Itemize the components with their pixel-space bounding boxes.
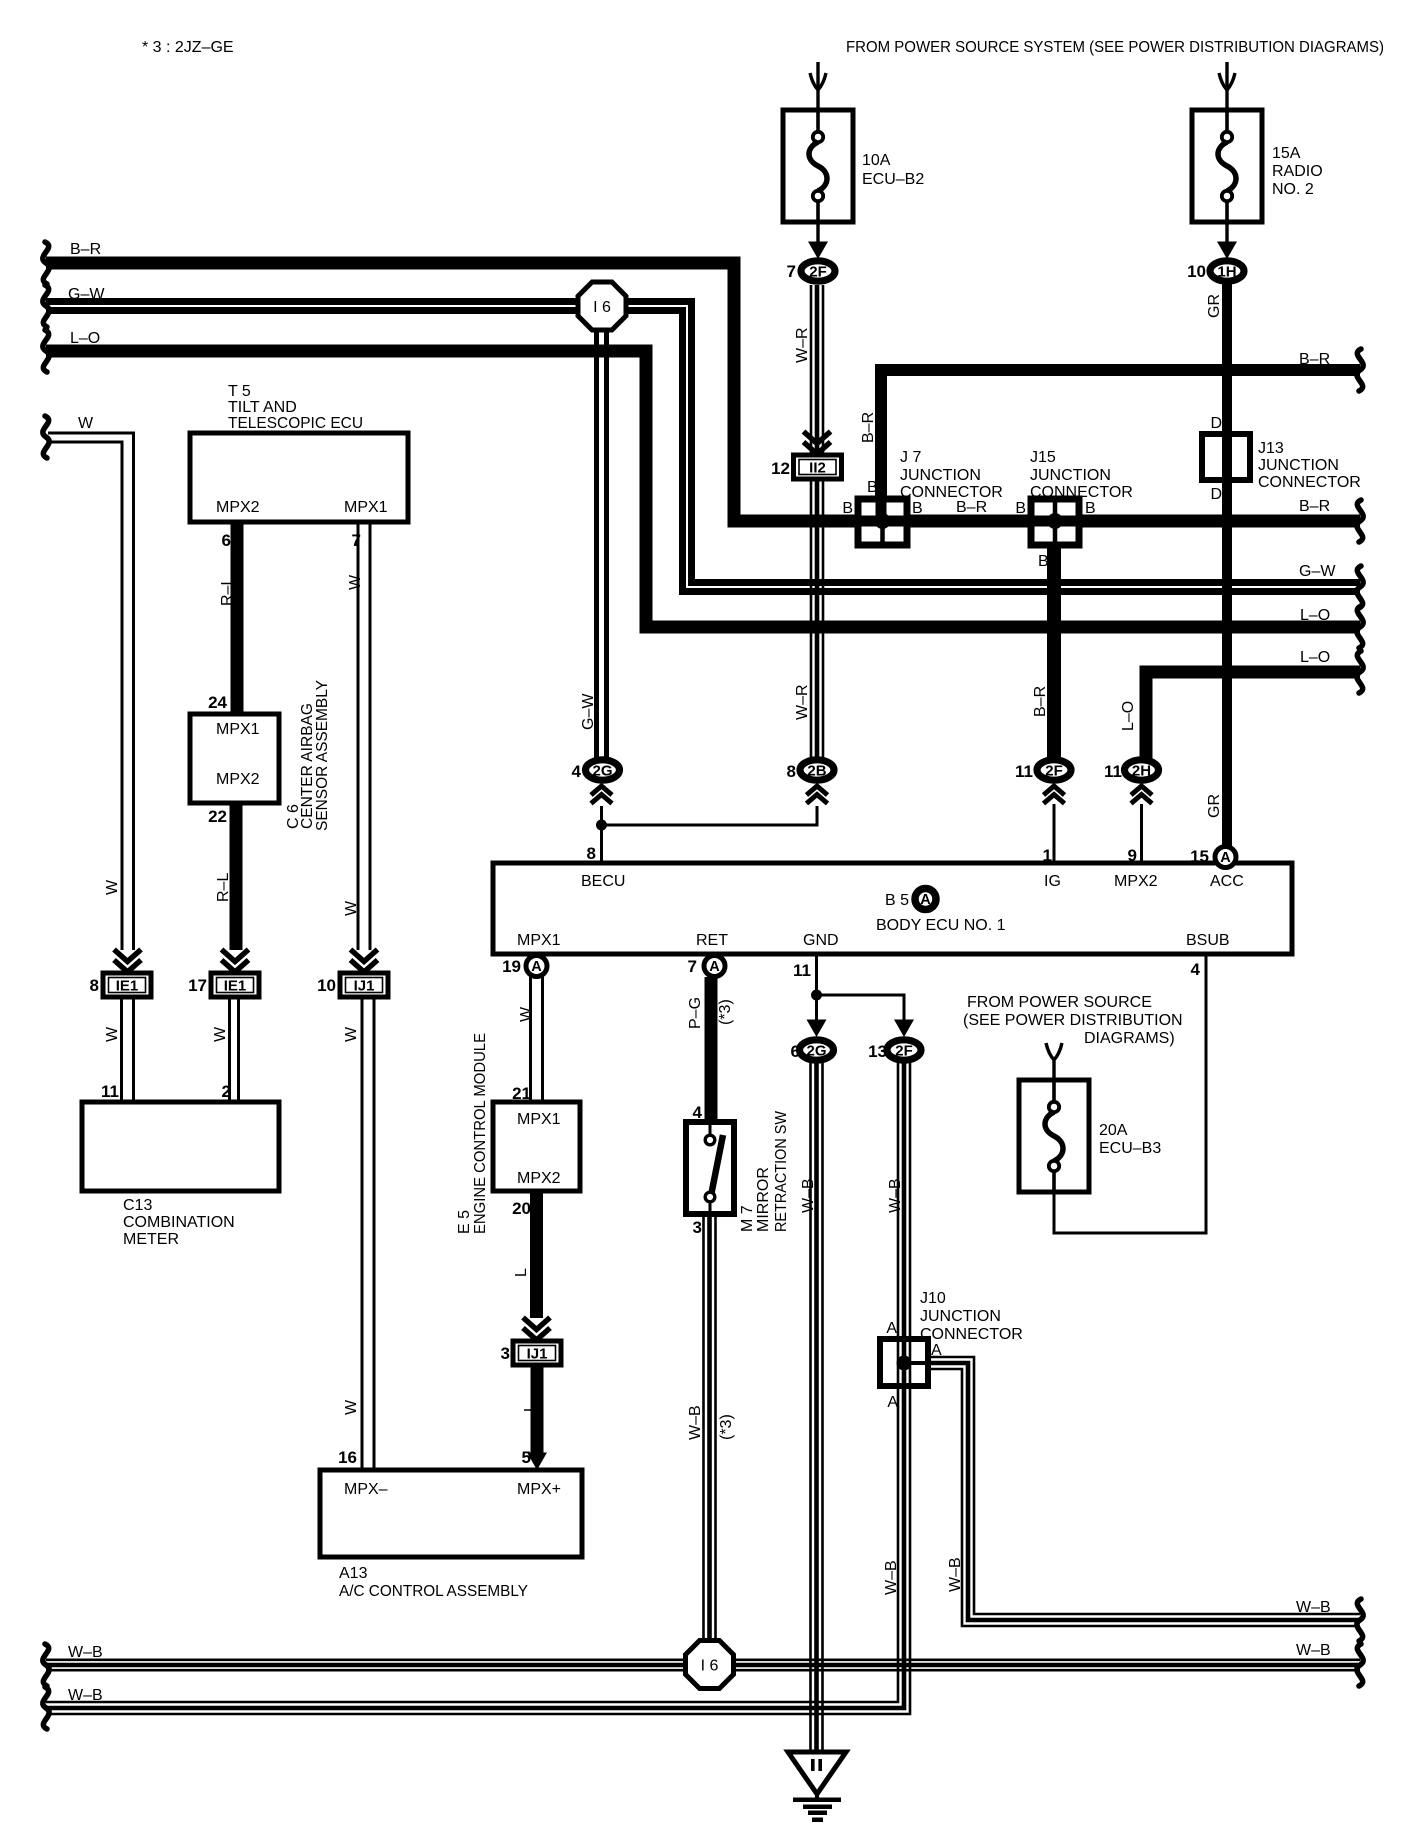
svg-text:TELESCOPIC ECU: TELESCOPIC ECU <box>228 415 363 432</box>
svg-text:L–O: L–O <box>70 330 100 347</box>
svg-text:G–W: G–W <box>580 693 597 730</box>
wire MPX2 pin9 <box>1140 804 1143 863</box>
junction dot GND branch <box>811 990 822 1001</box>
connector oval 2F(11) <box>1037 760 1071 780</box>
svg-text:W–B: W–B <box>887 1178 904 1213</box>
svg-text:A/C CONTROL ASSEMBLY: A/C CONTROL ASSEMBLY <box>339 1583 528 1600</box>
wire W-B 2G to ground (triple) <box>811 1060 823 1752</box>
chevron up into 2H(11) <box>1131 786 1152 804</box>
vertical wire color labels <box>104 294 1223 1595</box>
svg-text:2F: 2F <box>809 264 827 281</box>
wire P-G 7A to M7 pin4 <box>705 977 718 1124</box>
svg-text:G–W: G–W <box>68 286 105 303</box>
svg-text:I 6: I 6 <box>701 1658 719 1675</box>
E5 engine control module box <box>493 1102 580 1191</box>
svg-text:B: B <box>1015 500 1026 517</box>
junction connector J7 <box>858 499 907 545</box>
chevron into II2 <box>804 432 831 455</box>
svg-text:RETRACTION SW: RETRACTION SW <box>773 1110 790 1232</box>
T5 tilt and telescopic ECU box <box>190 433 408 522</box>
chevron into IJ1 no.3 <box>523 1318 550 1341</box>
pin number labels <box>90 262 1209 1467</box>
svg-text:I 6: I 6 <box>593 299 611 316</box>
svg-text:7: 7 <box>787 262 796 281</box>
svg-text:7: 7 <box>688 957 697 976</box>
svg-text:ECU–B2: ECU–B2 <box>862 171 924 188</box>
svg-text:MPX2: MPX2 <box>216 771 260 788</box>
wire W-B J10 right to upper right wavy (triple with corners) <box>928 1357 1360 1626</box>
svg-text:* 3 : 2JZ–GE: * 3 : 2JZ–GE <box>142 39 234 56</box>
svg-text:L–O: L–O <box>1120 701 1137 731</box>
chevron up into 2B(8) <box>807 786 828 804</box>
svg-text:3: 3 <box>501 1344 510 1363</box>
svg-text:BECU: BECU <box>581 873 625 890</box>
svg-text:21: 21 <box>512 1084 531 1103</box>
svg-text:15: 15 <box>1190 847 1209 866</box>
svg-text:8: 8 <box>90 976 99 995</box>
svg-text:W–B: W–B <box>68 1644 103 1661</box>
wire end B-R right upper <box>1357 349 1363 391</box>
svg-text:2G: 2G <box>806 1043 826 1060</box>
svg-text:2G: 2G <box>592 763 612 780</box>
connector IE1 no.8 <box>103 973 151 997</box>
svg-text:1: 1 <box>1043 846 1052 865</box>
svg-text:B: B <box>912 500 923 517</box>
svg-text:8: 8 <box>587 844 596 863</box>
svg-text:4: 4 <box>693 1103 703 1122</box>
svg-text:MPX–: MPX– <box>344 1481 388 1498</box>
wire end L-O right <box>1357 606 1363 648</box>
svg-text:L: L <box>522 1403 539 1412</box>
svg-text:IJ1: IJ1 <box>354 978 375 995</box>
svg-text:B: B <box>867 479 878 496</box>
svg-text:L–O: L–O <box>1300 607 1330 624</box>
wire end L-O right second <box>1357 651 1363 693</box>
svg-text:A: A <box>920 892 931 908</box>
svg-text:A: A <box>887 1394 898 1411</box>
svg-text:ECU–B3: ECU–B3 <box>1099 1140 1161 1157</box>
svg-text:B: B <box>842 500 853 517</box>
svg-text:4: 4 <box>1191 960 1201 979</box>
svg-text:(*3): (*3) <box>718 1414 735 1440</box>
svg-text:9: 9 <box>1128 846 1137 865</box>
wire W-B 2F(13) to J10 (triple) <box>898 1060 910 1345</box>
wire BSUB pin4 to 20A fuse <box>1054 956 1206 1233</box>
svg-text:JUNCTION: JUNCTION <box>900 467 981 484</box>
svg-text:JUNCTION: JUNCTION <box>1030 467 1111 484</box>
wire end W-B busB left <box>43 1687 49 1729</box>
svg-text:L–O: L–O <box>1300 649 1330 666</box>
svg-text:D: D <box>1210 486 1222 503</box>
junction connector J13 <box>1202 434 1250 480</box>
connector oval 2B(8) <box>800 760 834 780</box>
svg-text:MIRROR: MIRROR <box>755 1167 772 1232</box>
wire end G-W right <box>1357 566 1363 608</box>
wire B-R upper (J7 top branch) <box>881 370 1360 503</box>
wire L-O bus left, corner, right wavy <box>46 351 1360 627</box>
svg-text:JUNCTION: JUNCTION <box>920 1308 1001 1325</box>
svg-text:RADIO: RADIO <box>1272 163 1323 180</box>
svg-text:B 5: B 5 <box>885 892 909 909</box>
node I6 top <box>578 282 626 330</box>
svg-text:J15: J15 <box>1030 449 1056 466</box>
svg-text:MPX1: MPX1 <box>344 499 388 516</box>
svg-text:DIAGRAMS): DIAGRAMS) <box>1084 1030 1175 1047</box>
connector oval 2F(7) <box>801 261 835 281</box>
fuse 15A RADIO NO.2 <box>1192 110 1262 222</box>
node A circle ACC(15) <box>1215 847 1236 868</box>
C13 combination meter box <box>82 1102 279 1191</box>
wire end W-B busA left <box>43 1644 49 1686</box>
wire fuse to 1H(10) <box>1225 222 1228 245</box>
svg-text:E 5: E 5 <box>456 1210 473 1234</box>
svg-text:B–R: B–R <box>70 241 101 258</box>
wire end B-R right <box>1357 500 1363 542</box>
node I6 bottom <box>686 1641 734 1689</box>
wire GR 1H to ACC <box>1222 282 1232 848</box>
svg-text:J10: J10 <box>920 1290 946 1307</box>
svg-text:A: A <box>931 1342 942 1359</box>
body ECU no.1 box <box>493 863 1292 954</box>
svg-text:19: 19 <box>502 957 521 976</box>
svg-text:2F: 2F <box>1045 763 1063 780</box>
svg-text:MPX2: MPX2 <box>216 499 260 516</box>
wire end W-B right lower <box>1357 1644 1363 1686</box>
svg-text:BSUB: BSUB <box>1186 932 1230 949</box>
wire L-O second (to 2H) <box>1146 672 1360 760</box>
svg-text:IG: IG <box>1044 873 1061 890</box>
wire end W left <box>43 416 49 458</box>
node A circle MPX1(19) <box>526 956 547 977</box>
wire W 19A to E5 MPX1 (double) <box>529 977 532 1103</box>
svg-text:MPX1: MPX1 <box>517 932 561 949</box>
svg-text:6: 6 <box>222 531 231 550</box>
connector oval 1H(10) <box>1210 261 1244 281</box>
svg-text:J 7: J 7 <box>900 449 921 466</box>
svg-text:B–R: B–R <box>1299 498 1330 515</box>
junction connector J15 <box>1031 499 1079 545</box>
svg-text:B–R: B–R <box>860 412 877 443</box>
chevron into IE1 no.8 <box>114 950 141 973</box>
svg-text:T 5: T 5 <box>228 383 251 400</box>
svg-text:B–R: B–R <box>1299 351 1330 368</box>
svg-text:SENSOR ASSEMBLY: SENSOR ASSEMBLY <box>314 680 331 831</box>
connector IJ1 no.3 <box>513 1341 561 1365</box>
svg-text:P–G: P–G <box>687 997 704 1029</box>
svg-text:(SEE POWER DISTRIBUTION: (SEE POWER DISTRIBUTION <box>963 1012 1183 1029</box>
svg-text:COMBINATION: COMBINATION <box>123 1214 235 1231</box>
wire end G-W left <box>43 285 49 327</box>
svg-text:8: 8 <box>787 762 796 781</box>
wire W T5 MPX1 to IJ1 no.10 (double) <box>357 520 360 950</box>
svg-text:B–R: B–R <box>956 499 987 516</box>
svg-text:A13: A13 <box>339 1565 368 1582</box>
svg-text:NO. 2: NO. 2 <box>1272 181 1314 198</box>
svg-text:MPX1: MPX1 <box>216 721 260 738</box>
svg-text:METER: METER <box>123 1231 179 1248</box>
chevron up into 2G(4) <box>591 786 612 804</box>
svg-text:FROM POWER SOURCE: FROM POWER SOURCE <box>967 994 1152 1011</box>
connector oval 2G(4) <box>586 760 620 780</box>
20A ECU-B3 fuse feed arrow <box>1046 1043 1062 1060</box>
wire IG pin1 <box>1053 804 1056 863</box>
wire fuse to 2F(7) <box>816 222 819 245</box>
wire W IJ1 no.10 to A13 pin16 (double) <box>361 997 364 1472</box>
wire W-R fuse2F to II2 (triple) <box>811 285 823 455</box>
wire end B-R left <box>43 242 49 284</box>
svg-text:R–L: R–L <box>215 873 232 902</box>
connector IE1 no.17 <box>211 973 259 997</box>
svg-text:IE1: IE1 <box>224 978 247 995</box>
svg-text:BODY ECU NO. 1: BODY ECU NO. 1 <box>876 917 1006 934</box>
svg-text:2: 2 <box>222 1082 231 1101</box>
junction dot BECU branch <box>596 820 607 831</box>
junction connector J10 <box>880 1339 928 1386</box>
svg-text:RET: RET <box>696 932 728 949</box>
wire R-L T5 MPX2 to C6 <box>231 520 244 716</box>
svg-text:J13: J13 <box>1258 440 1284 457</box>
svg-text:CONNECTOR: CONNECTOR <box>1258 474 1361 491</box>
node A circle RET(7) <box>704 956 725 977</box>
solid arrow into 2F(13) <box>894 1020 914 1038</box>
svg-text:22: 22 <box>208 807 227 826</box>
svg-text:1H: 1H <box>1217 264 1236 281</box>
connector oval 2H(11) <box>1125 760 1159 780</box>
svg-text:GND: GND <box>803 932 839 949</box>
svg-text:B–R: B–R <box>1032 686 1049 717</box>
svg-text:W–R: W–R <box>794 327 811 363</box>
svg-text:ENGINE CONTROL MODULE: ENGINE CONTROL MODULE <box>472 1033 489 1234</box>
M7 mirror retraction switch <box>686 1122 734 1214</box>
svg-text:W: W <box>104 1026 121 1042</box>
wire GND pin11 branch <box>815 956 818 1022</box>
svg-text:MPX1: MPX1 <box>517 1111 561 1128</box>
svg-text:13: 13 <box>868 1042 887 1061</box>
wire G-W bus (double) left to I6 corner down right wavy <box>46 302 1360 583</box>
svg-text:ACC: ACC <box>1210 873 1244 890</box>
svg-text:CONNECTOR: CONNECTOR <box>920 1326 1023 1343</box>
svg-text:CONNECTOR: CONNECTOR <box>900 484 1003 501</box>
fuse 15A RADIO feed wire <box>1225 62 1228 112</box>
wire R-L C6 to IE1 no.17 <box>230 801 243 950</box>
fuse 10A ECU-B2 feed wire <box>816 62 819 112</box>
svg-text:11: 11 <box>1015 762 1033 781</box>
svg-text:2H: 2H <box>1132 763 1151 780</box>
fuse 20A ECU-B3 <box>1019 1080 1089 1192</box>
svg-text:B: B <box>1038 553 1049 570</box>
connector oval 2G(6) <box>800 1040 834 1060</box>
svg-text:2B: 2B <box>807 763 826 780</box>
svg-text:(*3): (*3) <box>717 999 734 1025</box>
svg-text:FROM POWER SOURCE SYSTEM (SEE: FROM POWER SOURCE SYSTEM (SEE POWER DIST… <box>846 39 1384 56</box>
svg-text:IE1: IE1 <box>116 978 139 995</box>
svg-text:A: A <box>886 1320 897 1337</box>
wire W below IE1 no.8 to C13 pin 11 (double) <box>120 997 123 1103</box>
connector II2 <box>794 455 842 479</box>
svg-text:GR: GR <box>1206 294 1223 318</box>
wire end W-B right upper <box>1357 1599 1363 1641</box>
svg-text:24: 24 <box>208 693 227 712</box>
svg-text:10A: 10A <box>862 152 891 169</box>
svg-text:L: L <box>513 1268 530 1277</box>
svg-text:10: 10 <box>317 976 336 995</box>
svg-text:3: 3 <box>693 1218 702 1237</box>
wire L E5 MPX2 to IJ1 no.3 <box>530 1190 543 1318</box>
svg-text:2F: 2F <box>895 1043 913 1060</box>
svg-text:W: W <box>212 1026 229 1042</box>
A13 A/C control assembly box <box>320 1470 582 1557</box>
svg-text:D: D <box>1210 415 1222 432</box>
svg-text:W–B: W–B <box>1296 1599 1331 1616</box>
svg-text:B: B <box>1085 500 1096 517</box>
fuse 10A ECU-B2 <box>783 110 853 222</box>
svg-text:W: W <box>343 1026 360 1042</box>
wire W-B bus A left wavy through I6 to right wavy (triple) <box>46 1659 1360 1662</box>
svg-text:W: W <box>343 1399 360 1415</box>
svg-text:15A: 15A <box>1272 145 1301 162</box>
svg-text:W–B: W–B <box>687 1405 704 1440</box>
svg-text:W: W <box>78 415 94 432</box>
svg-text:20A: 20A <box>1099 1122 1128 1139</box>
svg-text:W–B: W–B <box>68 1687 103 1704</box>
svg-text:IJ1: IJ1 <box>527 1346 548 1363</box>
svg-text:10: 10 <box>1187 262 1206 281</box>
wire B-R bus top-left to J7/J15/right wavy <box>46 263 1360 521</box>
svg-text:16: 16 <box>338 1448 357 1467</box>
svg-text:4: 4 <box>572 762 582 781</box>
solid arrow into 2G(6) <box>807 1020 827 1038</box>
node A circle B5 <box>915 889 936 910</box>
C6 center airbag sensor box <box>190 714 279 803</box>
wire end L-O left <box>43 330 49 372</box>
svg-text:TILT AND: TILT AND <box>228 399 297 416</box>
wire B J15 to 2F <box>1047 540 1061 760</box>
svg-text:W–R: W–R <box>794 684 811 720</box>
wire L IJ1 no.3 to A13 MPX+ <box>531 1365 544 1455</box>
svg-text:CONNECTOR: CONNECTOR <box>1030 484 1133 501</box>
svg-text:G–W: G–W <box>1299 563 1336 580</box>
svg-text:11: 11 <box>1104 762 1122 781</box>
svg-text:MPX2: MPX2 <box>517 1170 561 1187</box>
svg-text:6: 6 <box>791 1042 800 1061</box>
svg-text:W–B: W–B <box>883 1560 900 1595</box>
svg-text:W: W <box>343 900 360 916</box>
svg-text:W–B: W–B <box>800 1178 817 1213</box>
wire W-B M7 pin3 to I6 (triple) <box>704 1214 716 1650</box>
chevron into IE1 no.17 <box>222 950 249 973</box>
wire W-R II2 to 2B (triple) <box>811 479 823 760</box>
wire W-B bus B left wavy to J10 bottom (triple with corner) <box>46 1382 910 1714</box>
svg-text:W–B: W–B <box>947 1557 964 1592</box>
svg-text:11: 11 <box>793 961 811 980</box>
svg-text:W: W <box>347 574 364 590</box>
svg-text:C13: C13 <box>123 1197 152 1214</box>
chevron into IJ1 no.10 <box>351 950 378 973</box>
ground symbol II <box>788 1752 846 1822</box>
svg-text:W: W <box>104 879 121 895</box>
svg-text:MPX+: MPX+ <box>517 1481 561 1498</box>
svg-text:12: 12 <box>771 459 790 478</box>
svg-text:20: 20 <box>512 1199 531 1218</box>
connector oval 2F(13) <box>887 1040 921 1060</box>
chevron up into 2F(11) <box>1044 786 1065 804</box>
svg-text:GR: GR <box>1206 794 1223 818</box>
wire BECU pin8 branch <box>600 806 603 863</box>
svg-text:7: 7 <box>352 531 361 550</box>
wire W top-left wavy to IE1 no.8 (double) <box>48 433 134 950</box>
connector IJ1 no.10 <box>340 973 388 997</box>
svg-text:R–L: R–L <box>219 577 236 606</box>
svg-text:JUNCTION: JUNCTION <box>1258 457 1339 474</box>
svg-text:11: 11 <box>101 1082 119 1101</box>
svg-text:II2: II2 <box>809 460 826 477</box>
wire W below IE1 no.17 to C13 pin 2 (double) <box>228 997 231 1103</box>
wire G-W I6 to 2G (double) <box>597 315 607 760</box>
svg-text:5: 5 <box>522 1448 531 1467</box>
svg-text:MPX2: MPX2 <box>1114 873 1158 890</box>
svg-text:W–B: W–B <box>1296 1642 1331 1659</box>
svg-text:M 7: M 7 <box>739 1205 756 1232</box>
svg-text:W: W <box>518 1006 535 1022</box>
solid arrow into A13 <box>527 1453 547 1471</box>
svg-text:17: 17 <box>188 976 207 995</box>
